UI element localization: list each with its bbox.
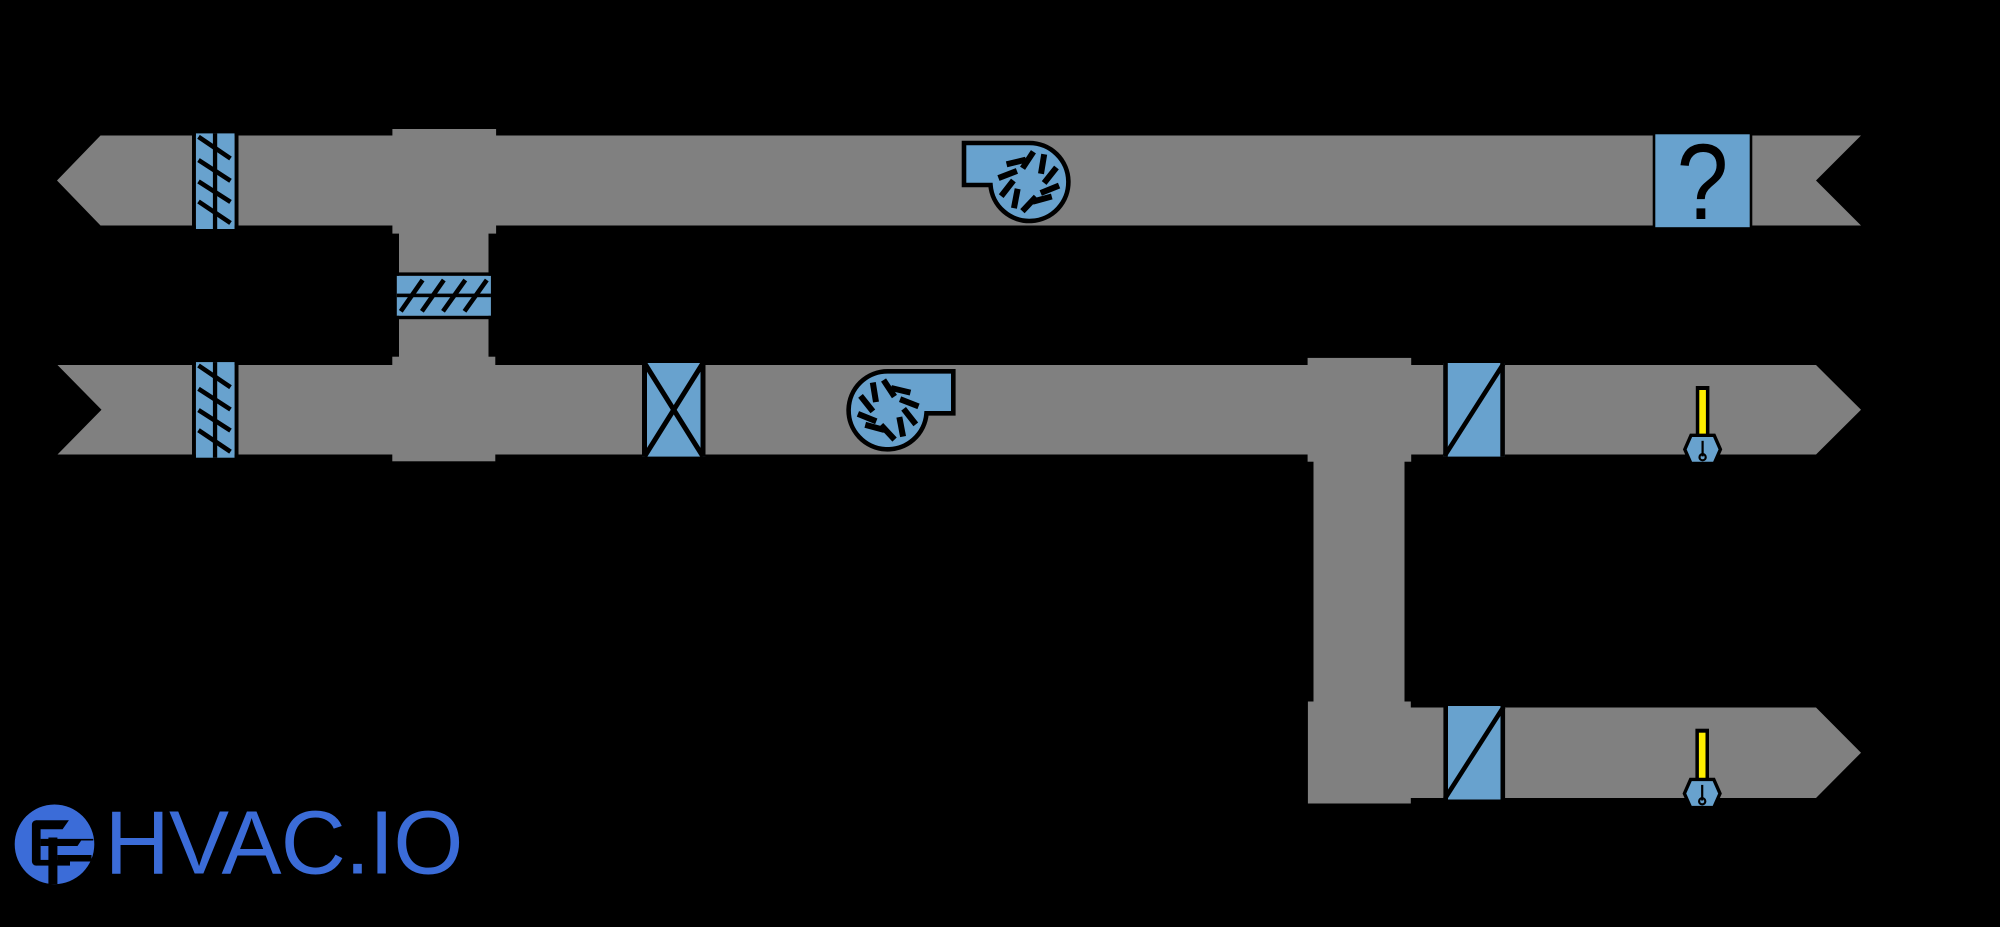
fan F1 (exhaust fan) on top duct [964, 143, 1068, 221]
fan F2 (supply fan) on middle duct [849, 371, 954, 449]
wire: vertical connecting duct 1 (top to middle) [399, 232, 489, 359]
wire: exhaust-air duct (top), flow right-to-left [57, 136, 1861, 226]
node: flanged T-junction on middle duct (left) [392, 357, 495, 462]
thermometer T1 on middle duct [1685, 386, 1721, 464]
filter/flex-connector symbol on middle duct [192, 362, 239, 458]
node: flanged elbow at bottom duct [1308, 702, 1411, 804]
filter/flex-connector symbol on top duct [192, 133, 239, 229]
thermometer T2 on bottom duct [1684, 729, 1720, 808]
wire: supply-air duct (middle), flow left-to-right [58, 365, 1862, 455]
svg-text:HVAC.IO: HVAC.IO [105, 794, 463, 894]
wire: branch duct (bottom), flow left-to-right [1408, 708, 1861, 799]
unknown component box (question mark) on top duct [1654, 122, 1751, 242]
damper D1 (crossed box) on middle duct [642, 363, 706, 457]
node: flanged T-junction on top duct [392, 129, 496, 234]
logo mark: HVAC.IO circular emblem [15, 805, 95, 885]
damper D2 (single-blade) on middle duct [1443, 363, 1505, 457]
svg-text:?: ? [1677, 122, 1729, 242]
filter/flex-connector symbol on vertical duct 1 [397, 272, 491, 319]
wire: vertical branch duct 2 (middle to bottom) [1314, 460, 1405, 704]
damper D3 (single-blade) on bottom duct [1444, 706, 1506, 800]
node: flanged T-junction on middle duct (right) [1308, 358, 1412, 462]
